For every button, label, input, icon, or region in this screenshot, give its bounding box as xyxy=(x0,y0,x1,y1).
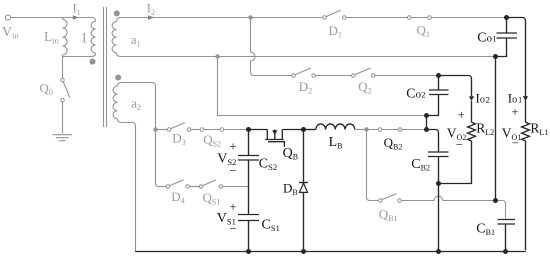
svg-text:−: − xyxy=(456,137,463,151)
svg-text:−: − xyxy=(229,164,236,178)
svg-text:1: 1 xyxy=(492,34,496,44)
svg-text:+: + xyxy=(229,200,236,214)
svg-text:+: + xyxy=(229,140,236,154)
svg-text:Co: Co xyxy=(477,31,492,46)
svg-text:+: + xyxy=(511,105,518,119)
svg-text:−: − xyxy=(512,136,519,150)
svg-text:+: + xyxy=(458,108,465,122)
svg-text:1: 1 xyxy=(81,30,88,46)
svg-text:Co: Co xyxy=(406,87,421,102)
svg-text:1: 1 xyxy=(518,95,522,105)
svg-text:2: 2 xyxy=(486,95,490,105)
svg-text:2: 2 xyxy=(421,90,425,100)
svg-text:−: − xyxy=(229,221,236,235)
